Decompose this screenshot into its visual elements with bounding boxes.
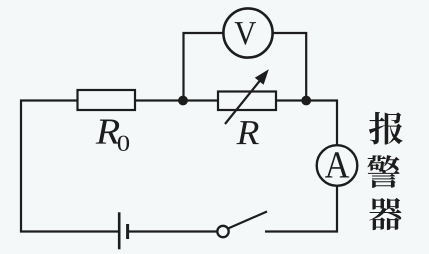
- wire: right side below ammeter and bottom right to switch: [265, 186, 337, 232]
- ammeter circle: [317, 145, 358, 186]
- wire: top middle segment (R0 to R): [135, 99, 218, 101]
- wire: voltmeter branch left: [184, 33, 224, 101]
- wire: left loop (top-left segment, left side, bottom-left to battery): [21, 101, 118, 232]
- ammeter letter A: [325, 152, 349, 177]
- junction node dot left: [178, 96, 188, 106]
- switch pivot circle: [217, 226, 228, 237]
- voltmeter circle: [223, 8, 272, 57]
- voltmeter letter V: [235, 22, 256, 45]
- junction node dot right: [301, 96, 311, 106]
- text 报 (alarm device label char 1): [369, 112, 403, 145]
- label R of R0: [96, 120, 120, 144]
- battery positive plate (long): [118, 212, 121, 249]
- wire: voltmeter branch right: [273, 33, 307, 101]
- battery negative plate (short): [126, 224, 129, 239]
- wire: bottom middle segment (battery to switch): [129, 230, 217, 232]
- wire: top right segment and right side down to ammeter: [276, 101, 337, 146]
- text 器 (alarm device label char 3): [369, 198, 401, 230]
- label R (variable resistor): [236, 121, 258, 144]
- variable resistor R (arrow shaft): [225, 78, 262, 124]
- switch arm: [228, 212, 267, 229]
- variable resistor R (arrowhead): [255, 69, 269, 85]
- resistor R0 (body): [78, 90, 136, 110]
- text 警 (alarm device label char 2): [367, 155, 399, 188]
- label subscript 0 of R0: [118, 136, 129, 151]
- variable resistor R (body): [218, 92, 276, 111]
